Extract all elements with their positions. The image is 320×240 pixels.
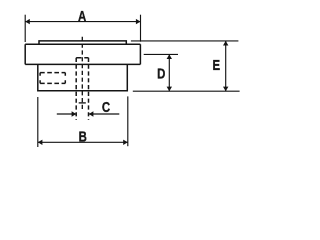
dimension E line xyxy=(225,41,227,91)
dimension D line xyxy=(168,54,170,91)
dimension E arrow top xyxy=(223,41,228,46)
dimension A line xyxy=(25,21,140,23)
dimension D arrow top xyxy=(167,54,172,59)
dimension B extension line left xyxy=(37,97,39,147)
hidden slot right edge xyxy=(88,58,90,120)
dimension E top reference line xyxy=(131,40,239,42)
body outline xyxy=(38,64,128,90)
dimension B extension line right xyxy=(127,96,129,146)
hidden pocket rectangle right edge xyxy=(64,73,66,84)
svg-text:C: C xyxy=(102,99,111,116)
dimension C right arrow xyxy=(89,111,94,116)
flange outline xyxy=(25,44,140,64)
dimension D arrow bottom xyxy=(167,87,172,92)
dimension C right line xyxy=(89,113,120,115)
dimension B arrow right xyxy=(123,140,128,145)
hidden pocket rectangle top edge xyxy=(40,72,65,74)
dimension E arrow bottom xyxy=(223,87,228,92)
hidden pocket rectangle bottom edge xyxy=(40,82,65,84)
bottom reference line xyxy=(133,90,240,92)
svg-text:B: B xyxy=(79,128,88,145)
svg-text:E: E xyxy=(212,57,220,74)
hidden slot top edge xyxy=(76,57,88,59)
top plate outline xyxy=(39,41,126,44)
centerline xyxy=(81,35,83,110)
dimension A arrow left xyxy=(25,19,30,24)
dimension A arrow right xyxy=(136,19,141,24)
dimension B arrow left xyxy=(38,140,43,145)
dimension C left line xyxy=(57,113,76,115)
hidden slot left edge xyxy=(75,58,77,120)
dimension D reference line xyxy=(144,53,178,55)
dimension A extension line right xyxy=(140,15,142,42)
hidden pocket rectangle left edge xyxy=(39,73,41,84)
svg-text:D: D xyxy=(157,65,166,82)
dimension C left arrow xyxy=(72,111,77,116)
svg-text:A: A xyxy=(78,7,87,24)
center mark cross xyxy=(79,102,86,104)
dimension A extension line left xyxy=(24,15,26,42)
dimension B line xyxy=(38,141,128,143)
